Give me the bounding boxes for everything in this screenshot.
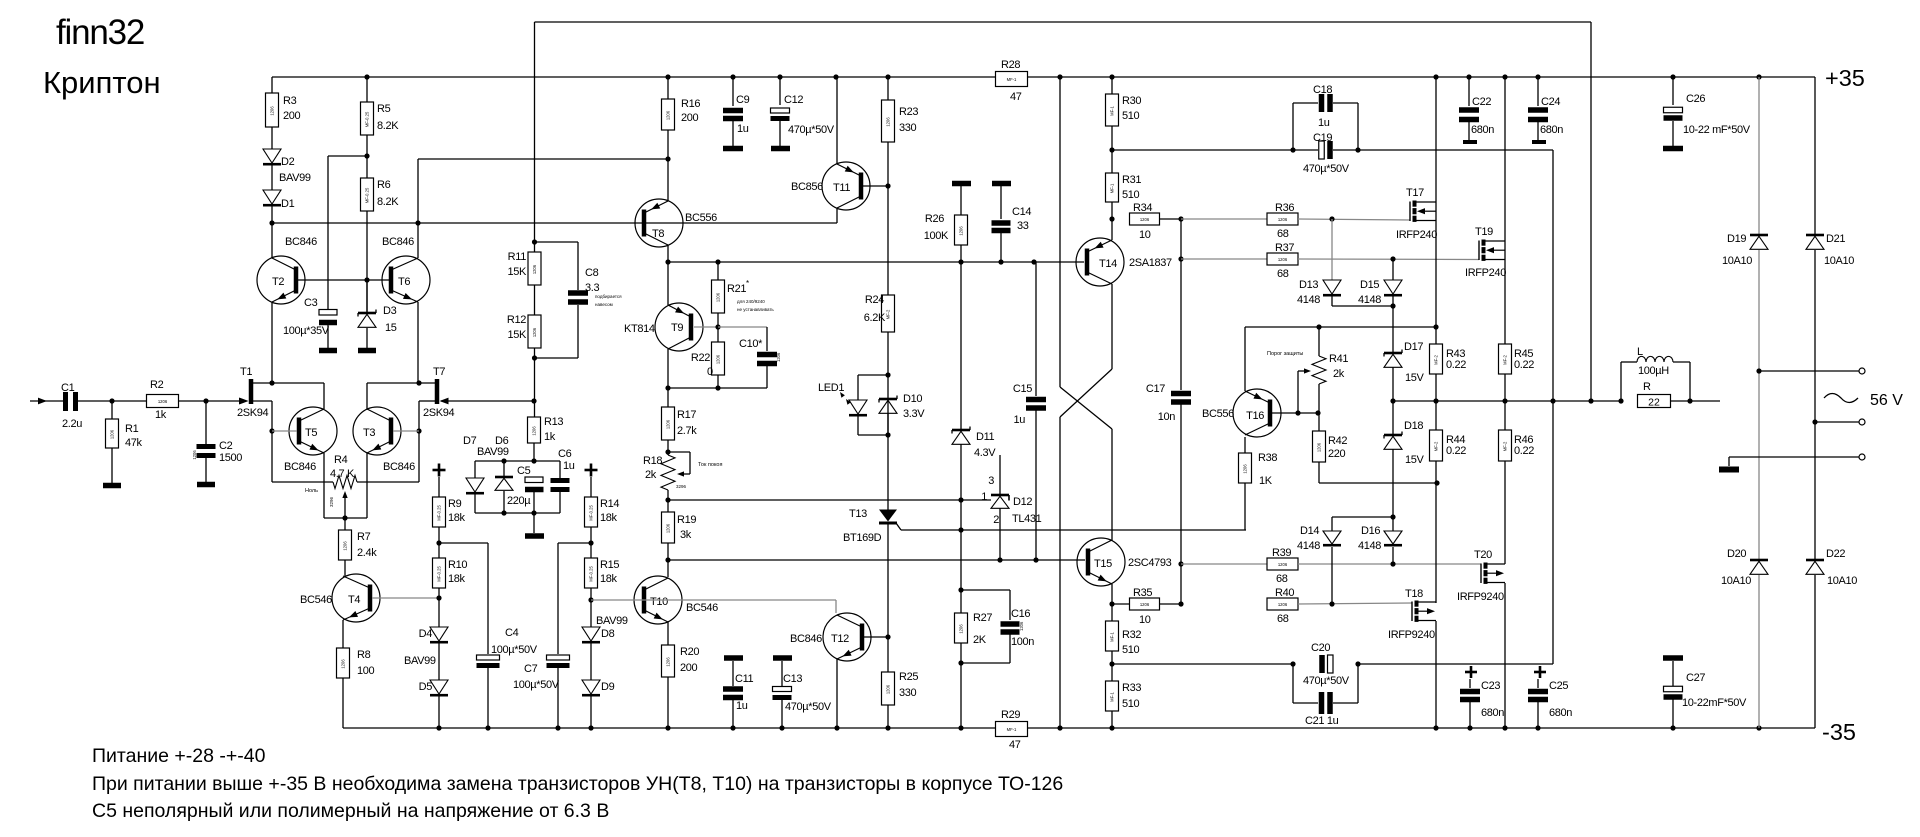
svg-text:R13: R13 (544, 416, 563, 428)
svg-text:1206: 1206 (666, 523, 671, 533)
svg-text:MF-0.25: MF-0.25 (365, 187, 370, 203)
svg-text:510: 510 (1122, 110, 1140, 122)
svg-text:D7: D7 (463, 435, 477, 447)
resistor R17 2.7k (662, 407, 675, 440)
resistor R43 0.22 (1430, 344, 1443, 374)
svg-text:1206: 1206 (1278, 562, 1288, 567)
wire T19 drain/source vertical (1504, 77, 1506, 344)
svg-text:T6: T6 (398, 276, 410, 288)
potentiometer R41 2k (Порог защиты) (1318, 327, 1320, 356)
capacitor C16 100n (961, 589, 1010, 591)
svg-text:D20: D20 (1727, 548, 1746, 560)
svg-text:C11: C11 (735, 673, 754, 685)
svg-text:68: 68 (1276, 573, 1288, 585)
resistor R42 220 (1313, 431, 1326, 462)
svg-text:finn32: finn32 (56, 13, 144, 52)
transistor T8 (BC556) (635, 199, 683, 247)
svg-text:C20: C20 (1311, 642, 1330, 654)
svg-text:C22: C22 (1472, 96, 1491, 108)
capacitor C21 1u (1292, 664, 1294, 703)
wire C1 to R2 (78, 400, 147, 402)
svg-text:3: 3 (988, 475, 994, 487)
svg-text:C27: C27 (1686, 672, 1705, 684)
svg-text:1u: 1u (736, 700, 748, 712)
svg-text:R17: R17 (677, 409, 696, 421)
svg-text:MF-2: MF-2 (1503, 441, 1508, 451)
svg-text:1206: 1206 (158, 399, 168, 404)
transistor T12 (BC846) (823, 613, 871, 661)
ground (AC) (1719, 467, 1739, 473)
potentiometer R4 4.7K (272, 481, 333, 483)
ground (D3) (358, 348, 376, 354)
svg-text:Ток покоя: Ток покоя (698, 462, 722, 468)
svg-text:R18: R18 (643, 455, 662, 467)
wire T11 emitter to +35 (836, 77, 838, 164)
svg-text:47: 47 (1010, 91, 1022, 103)
svg-text:T7: T7 (433, 366, 445, 378)
diode D16 4148 (1392, 517, 1394, 531)
svg-text:T19: T19 (1475, 226, 1493, 238)
resistor R9 18k (438, 477, 440, 497)
svg-text:1K: 1K (1259, 475, 1273, 487)
svg-text:T3: T3 (363, 427, 375, 439)
wire -35 bottom rail (343, 727, 996, 729)
resistor R11 15K (528, 252, 541, 285)
svg-text:1206: 1206 (959, 624, 964, 634)
wire C5 to ground (533, 513, 535, 533)
svg-text:R22: R22 (691, 352, 710, 364)
svg-text:680n: 680n (1549, 707, 1572, 719)
diode D7 (BAV99) (474, 461, 476, 478)
wire R6 down to D3 (366, 211, 368, 312)
svg-text:100µ*35V: 100µ*35V (283, 325, 330, 337)
svg-text:1206: 1206 (716, 354, 721, 364)
svg-text:T15: T15 (1094, 558, 1112, 570)
zener D3 15 (366, 280, 368, 313)
svg-text:R38: R38 (1258, 452, 1277, 464)
wire T12 emitter to rail (836, 659, 838, 728)
svg-text:BC846: BC846 (285, 236, 317, 248)
svg-text:1206: 1206 (1019, 621, 1024, 631)
wire T2 emitter to T1 drain (271, 302, 273, 383)
svg-text:D14: D14 (1300, 525, 1319, 537)
diode D4 (BAV99) (430, 627, 448, 641)
capacitor C20 470µ*50V (1319, 655, 1325, 673)
label 56 V with AC tilde (1824, 394, 1858, 403)
svg-text:1206: 1206 (532, 264, 537, 274)
svg-text:IRFP240: IRFP240 (1396, 229, 1437, 241)
wire top rail (from R11 node to output feedback) (535, 21, 1592, 23)
svg-text:подбирается: подбирается (595, 294, 622, 299)
svg-text:C4: C4 (505, 627, 519, 639)
svg-text:C15: C15 (1013, 383, 1032, 395)
svg-text:R40: R40 (1275, 587, 1294, 599)
svg-text:R3: R3 (283, 95, 297, 107)
capacitor C6 1u (559, 461, 561, 478)
zener D18 15V (1384, 434, 1402, 437)
svg-text:R8: R8 (357, 649, 371, 661)
svg-text:3.3V: 3.3V (903, 408, 925, 420)
wire T1 source stub (253, 400, 272, 402)
wire C18/C19 loop (1292, 103, 1294, 150)
capacitor C15 1u (1035, 262, 1037, 396)
svg-text:C17: C17 (1146, 383, 1165, 395)
svg-text:510: 510 (1122, 644, 1140, 656)
svg-text:T5: T5 (305, 427, 317, 439)
capacitor C26 10-22mF*50V (1672, 77, 1674, 105)
resistor R 22 (1618, 398, 1623, 403)
svg-text:0.22: 0.22 (1446, 445, 1466, 457)
svg-text:R15: R15 (600, 559, 619, 571)
svg-text:8.2K: 8.2K (377, 120, 399, 132)
svg-text:MF-1: MF-1 (1110, 183, 1115, 193)
svg-text:C8: C8 (585, 267, 599, 279)
svg-text:10: 10 (1139, 614, 1151, 626)
svg-text:BC856: BC856 (791, 181, 823, 193)
wire bias spreader line (to TL431) (668, 499, 991, 501)
inductor L 100µH (1620, 362, 1622, 401)
capacitor C9 1u (732, 77, 734, 106)
svg-text:BT169D: BT169D (843, 532, 882, 544)
svg-text:MF-1: MF-1 (1110, 691, 1115, 701)
svg-text:T2: T2 (272, 276, 284, 288)
svg-text:2: 2 (993, 514, 999, 526)
svg-text:100µ*50V: 100µ*50V (513, 679, 560, 691)
svg-text:R5: R5 (377, 103, 391, 115)
svg-text:3.3: 3.3 (585, 282, 599, 294)
svg-text:C10*: C10* (739, 338, 763, 350)
svg-text:6.2K: 6.2K (864, 312, 886, 324)
svg-text:1206: 1206 (776, 352, 781, 362)
resistor R8 100 (342, 620, 344, 648)
svg-text:R23: R23 (899, 106, 918, 118)
svg-text:D21: D21 (1826, 233, 1845, 245)
svg-text:10A10: 10A10 (1827, 575, 1857, 587)
wire output source bus (1393, 400, 1621, 402)
diode D19 10A10 (1758, 77, 1760, 234)
svg-text:R26: R26 (925, 213, 944, 225)
svg-text:1206: 1206 (270, 106, 275, 116)
transistor T3 (BC846) (353, 407, 401, 455)
resistor R32 510 (1106, 621, 1119, 651)
transistor T6 (BC846) (382, 256, 430, 304)
svg-text:8.2K: 8.2K (377, 196, 399, 208)
svg-text:R10: R10 (448, 559, 467, 571)
svg-text:T17: T17 (1406, 187, 1424, 199)
svg-text:для 240/9240: для 240/9240 (737, 299, 765, 304)
svg-text:1206: 1206 (886, 684, 891, 694)
svg-text:1u: 1u (1013, 414, 1025, 426)
wire top rail drop to R11 (534, 22, 536, 252)
svg-text:1u: 1u (737, 123, 749, 135)
svg-text:IRFP9240: IRFP9240 (1388, 629, 1435, 641)
svg-text:BC546: BC546 (686, 602, 718, 614)
svg-text:R12: R12 (507, 314, 526, 326)
LED1 (858, 374, 888, 376)
svg-text:2SC4793: 2SC4793 (1128, 557, 1172, 569)
svg-text:1206: 1206 (716, 292, 721, 302)
svg-text:D13: D13 (1299, 279, 1318, 291)
wire T18 drain to rail (1435, 621, 1437, 728)
svg-text:R42: R42 (1328, 435, 1347, 447)
svg-text:10-22mF*50V: 10-22mF*50V (1682, 697, 1747, 709)
capacitor C1 (63, 392, 68, 411)
svg-text:R28: R28 (1001, 59, 1020, 71)
svg-text:1206: 1206 (192, 450, 197, 460)
capacitor C27 10-22mF*50V (1663, 655, 1683, 661)
svg-text:68: 68 (1277, 228, 1289, 240)
svg-text:MF-1: MF-1 (1007, 727, 1017, 732)
svg-text:4148: 4148 (1358, 540, 1381, 552)
svg-text:-35: -35 (1822, 719, 1856, 745)
svg-text:R36: R36 (1275, 202, 1294, 214)
svg-text:С5 неполярный или полимерный н: С5 неполярный или полимерный на напряжен… (92, 800, 609, 822)
svg-text:1206: 1206 (1140, 217, 1150, 222)
wire T14 collector / crossover (1111, 284, 1113, 369)
wire input line (30, 400, 65, 402)
wire ground terminal (1729, 456, 1859, 458)
capacitor C10* (718, 326, 767, 328)
svg-text:T18: T18 (1405, 588, 1423, 600)
wire R15 to D8 (590, 588, 592, 627)
wire R9/R10 junction to C4 (438, 527, 440, 558)
svg-text:10A10: 10A10 (1722, 255, 1752, 267)
svg-text:BC846: BC846 (382, 236, 414, 248)
svg-text:1206: 1206 (886, 117, 891, 127)
svg-text:R39: R39 (1272, 547, 1291, 559)
svg-text:1206: 1206 (110, 429, 115, 439)
svg-text:15V: 15V (1405, 454, 1425, 466)
capacitor C3 100µ*35V (319, 310, 337, 316)
svg-text:1206: 1206 (532, 426, 537, 436)
svg-text:1206: 1206 (1278, 602, 1288, 607)
wire T7 source stub (419, 400, 435, 402)
wire R10 to D4 (438, 588, 440, 627)
svg-text:R14: R14 (600, 498, 619, 510)
svg-text:T16: T16 (1246, 410, 1264, 422)
wire T8 base line (through T8 to T11 collector) (272, 222, 837, 224)
capacitor C7 100µ*50V (547, 655, 570, 660)
wire T1 drain stub (253, 382, 324, 384)
resistor R33 510 (1106, 681, 1119, 711)
wire R30/R31 junction to C18/C19 (1111, 126, 1113, 173)
svg-text:KT814: KT814 (624, 323, 655, 335)
svg-text:BC846: BC846 (383, 461, 415, 473)
svg-text:2SK94: 2SK94 (237, 407, 269, 419)
svg-text:R7: R7 (357, 531, 371, 543)
capacitor C24 680n (1537, 77, 1539, 106)
zener D6 (503, 461, 505, 477)
diode D5 (BAV99) (438, 643, 440, 680)
svg-text:D10: D10 (903, 393, 922, 405)
svg-text:MF-2: MF-2 (1434, 441, 1439, 451)
resistor R40 68 (gate T18) (1267, 598, 1298, 610)
resistor R34 10 (1130, 213, 1160, 225)
transistor T11 (BC856) (822, 162, 870, 210)
svg-text:T10: T10 (650, 596, 668, 608)
svg-text:R32: R32 (1122, 629, 1141, 641)
capacitor C19 470µ*50V (1293, 149, 1318, 151)
svg-text:330: 330 (899, 687, 917, 699)
svg-text:MF-1: MF-1 (1110, 105, 1115, 115)
wire T11 collector down to T8 base line (836, 208, 838, 223)
thyristor T13 (BT169D) (879, 510, 897, 522)
svg-text:18k: 18k (448, 512, 466, 524)
svg-text:10A10: 10A10 (1824, 255, 1854, 267)
diode D8 (BAV99) (582, 627, 600, 641)
svg-text:D16: D16 (1361, 525, 1380, 537)
wire R2 to T1 gate (179, 400, 247, 402)
resistor R22 0 (717, 327, 719, 342)
wire T6 collector to T8 emitter node (418, 158, 668, 160)
svg-text:R37: R37 (1275, 242, 1294, 254)
svg-text:C16: C16 (1011, 608, 1030, 620)
capacitor C17 10n (1180, 219, 1182, 390)
svg-text:15V: 15V (1405, 372, 1425, 384)
transistor T2 (BC846) (257, 256, 305, 304)
transistor T5 (BC846) (289, 407, 337, 455)
transistor T16 (BC556) (1233, 389, 1281, 437)
svg-text:1206: 1206 (341, 659, 346, 669)
wire T10 base line (gray, through to T12 collector) (591, 599, 836, 601)
svg-text:C23: C23 (1481, 680, 1500, 692)
diode D13 4148 (1331, 219, 1333, 280)
svg-text:1206: 1206 (1317, 442, 1322, 452)
svg-text:R30: R30 (1122, 95, 1141, 107)
wire T9 base to R21/R22 (694, 326, 718, 328)
svg-text:C21 1u: C21 1u (1305, 715, 1339, 727)
capacitor C18 1u (1293, 102, 1318, 104)
resistor R24 6.2K (882, 295, 895, 332)
svg-text:1206: 1206 (1243, 464, 1248, 474)
svg-text:C24: C24 (1541, 96, 1560, 108)
svg-text:18k: 18k (600, 512, 618, 524)
svg-text:1206: 1206 (666, 657, 671, 667)
wire R18 to R19 (667, 490, 669, 512)
wire T2/T6 base line (298, 279, 389, 281)
zener D11 4.3V (952, 429, 970, 432)
transistor T1 (2SK94 JFET) (249, 379, 254, 404)
diode D9 (BAV99) (590, 643, 592, 680)
svg-text:68: 68 (1277, 268, 1289, 280)
resistor R36 68 (gate T17) (1181, 218, 1267, 220)
diode D2 (BAV99) (271, 127, 273, 149)
svg-text:C7: C7 (524, 663, 538, 675)
resistor R16 200 (667, 77, 669, 99)
wire T8 collector node (667, 245, 669, 305)
transistor T20 (IRFP9240) (1480, 564, 1482, 584)
svg-text:15: 15 (385, 322, 397, 334)
svg-text:TL431: TL431 (1012, 513, 1042, 525)
resistor R26 100K (952, 181, 971, 187)
svg-text:680n: 680n (1471, 124, 1494, 136)
wire R14/R15 junction to C7 (590, 527, 592, 558)
svg-text:2SA1837: 2SA1837 (1129, 257, 1172, 269)
svg-text:При питании выше +-35 В необхо: При питании выше +-35 В необходима замен… (92, 773, 1063, 795)
svg-text:BAV99: BAV99 (596, 615, 628, 627)
svg-text:330: 330 (899, 122, 917, 134)
svg-text:D5: D5 (419, 681, 433, 693)
resistor R13 1k (528, 417, 541, 443)
svg-text:68: 68 (1277, 613, 1289, 625)
transistor T9 (KT814) (655, 303, 703, 351)
svg-text:IRFP9240: IRFP9240 (1457, 591, 1504, 603)
svg-text:R25: R25 (899, 671, 918, 683)
svg-text:470µ*50V: 470µ*50V (788, 124, 835, 136)
svg-text:MF-2: MF-2 (886, 309, 891, 319)
transistor T18 (IRFP9240) (1411, 602, 1413, 622)
svg-text:220: 220 (1328, 448, 1346, 460)
svg-text:22: 22 (1648, 397, 1660, 409)
svg-text:MF-0.25: MF-0.25 (589, 566, 594, 582)
svg-text:4.7 K: 4.7 K (330, 468, 355, 480)
resistor R12 15K (534, 285, 536, 315)
resistor R10 18k (433, 558, 446, 588)
ground (C2) (197, 482, 215, 488)
svg-text:510: 510 (1122, 189, 1140, 201)
svg-text:0.22: 0.22 (1514, 445, 1534, 457)
svg-text:D15: D15 (1360, 279, 1379, 291)
wire +35 rail (272, 76, 996, 78)
svg-text:R11: R11 (508, 251, 527, 263)
svg-text:4148: 4148 (1297, 294, 1320, 306)
resistor R7 2.4k (344, 518, 346, 530)
capacitor C2 (205, 401, 207, 444)
capacitor C13 470µ*50V (773, 655, 792, 661)
wire bias box top (475, 460, 560, 462)
svg-text:1206: 1206 (1140, 602, 1150, 607)
svg-text:0: 0 (707, 366, 713, 378)
wire +35 to T15 collector / crossover (1059, 77, 1061, 387)
svg-text:100µH: 100µH (1638, 365, 1669, 377)
resistor R14 18k (590, 477, 592, 497)
svg-text:200: 200 (680, 662, 698, 674)
wire T9 collector node (667, 349, 669, 407)
diode D15 4148 (1392, 259, 1394, 280)
svg-text:C26: C26 (1686, 93, 1705, 105)
svg-text:56 V: 56 V (1870, 392, 1903, 409)
wire T15 emitter to R35/R32 (1111, 584, 1113, 621)
svg-text:D11: D11 (976, 431, 995, 443)
wire T10 collector bus to T15 base (668, 559, 1085, 561)
wire T13 cathode down to T12 base (887, 524, 889, 637)
svg-text:навесом: навесом (595, 302, 613, 307)
svg-text:2.4k: 2.4k (357, 547, 377, 559)
svg-text:R1: R1 (125, 423, 139, 435)
svg-text:470µ*50V: 470µ*50V (785, 701, 832, 713)
capacitor C23 680n (1465, 671, 1477, 674)
diode D14 4148 (1331, 517, 1333, 531)
wire T16 emitter sense line (1244, 327, 1246, 391)
svg-text:не устанавливать: не устанавливать (737, 307, 774, 312)
svg-text:C3: C3 (304, 297, 318, 309)
wire T16 base (1272, 412, 1318, 414)
svg-text:1u: 1u (1318, 117, 1330, 129)
svg-text:1206: 1206 (1278, 257, 1288, 262)
svg-text:MF-0.25: MF-0.25 (365, 111, 370, 127)
svg-text:C6: C6 (558, 448, 572, 460)
svg-text:D22: D22 (1826, 548, 1845, 560)
svg-text:BC556: BC556 (1202, 408, 1234, 420)
resistor R28 (996, 72, 1028, 87)
svg-text:C1: C1 (61, 382, 75, 394)
svg-text:R20: R20 (680, 646, 699, 658)
svg-text:L: L (1637, 346, 1643, 358)
svg-text:100µ*50V: 100µ*50V (491, 644, 538, 656)
wire T6 collector up / emitter down (417, 302, 419, 383)
diode D20 10A10 (1758, 371, 1760, 559)
svg-text:C18: C18 (1313, 84, 1332, 96)
